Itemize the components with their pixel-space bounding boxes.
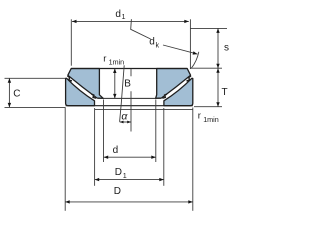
sliding surface notch, left lower	[92, 94, 97, 98]
dimension T	[194, 106, 222, 108]
shaft washer, left section	[68, 69, 103, 99]
sliding surface notch, right lower	[162, 94, 167, 98]
svg-text:T: T	[222, 87, 228, 98]
dimension dk leader	[131, 19, 151, 39]
svg-text:d: d	[149, 36, 155, 47]
sliding surface notch, left upper	[67, 76, 72, 81]
sphere arc outside bearing	[191, 52, 199, 69]
housing washer, right section	[164, 78, 193, 105]
housing bore corner line (r1min reference)	[95, 109, 193, 111]
dimension s	[190, 27, 227, 29]
bottom face line	[66, 105, 193, 107]
svg-text:B: B	[124, 78, 131, 89]
dimension D1	[94, 108, 96, 186]
top face line	[71, 68, 187, 70]
dimension d1	[70, 19, 72, 65]
svg-text:k: k	[156, 40, 160, 49]
svg-text:C: C	[13, 88, 20, 99]
svg-text:1: 1	[122, 12, 126, 21]
svg-text:r: r	[198, 111, 201, 122]
shaft washer bottom line (B reference)	[98, 97, 162, 99]
shaft washer, right section	[156, 69, 191, 99]
svg-text:d: d	[115, 9, 121, 20]
angle alpha arrows	[120, 121, 131, 123]
dimension d	[103, 100, 105, 163]
svg-text:α: α	[121, 110, 128, 122]
svg-text:1min: 1min	[203, 115, 219, 124]
svg-text:D: D	[115, 167, 122, 178]
dimension C	[5, 77, 66, 79]
sliding surface notch, right upper	[187, 76, 192, 81]
svg-text:d: d	[113, 145, 119, 156]
dimension D	[64, 108, 66, 211]
svg-text:1min: 1min	[109, 57, 125, 66]
angle alpha reference lines	[130, 69, 132, 76]
svg-text:D: D	[114, 186, 121, 197]
housing washer, left section	[66, 78, 95, 105]
dimension B	[114, 69, 116, 99]
svg-text:s: s	[224, 42, 229, 53]
svg-text:r: r	[103, 53, 106, 64]
svg-text:1: 1	[123, 171, 127, 180]
